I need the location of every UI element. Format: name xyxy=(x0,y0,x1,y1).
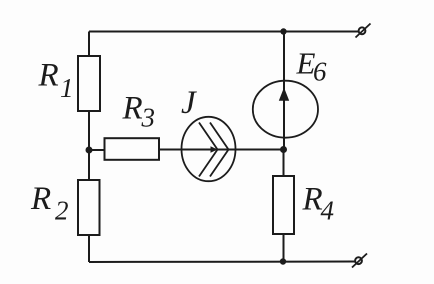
resistor R3 xyxy=(105,138,160,160)
wire R3 to J xyxy=(159,149,182,151)
wire middle left segment xyxy=(89,149,104,151)
wire left vertical upper xyxy=(88,32,90,57)
wire left vertical lower xyxy=(88,235,90,262)
wire top horizontal xyxy=(89,31,358,33)
svg-text:1: 1 xyxy=(60,73,74,103)
voltage source E6 xyxy=(253,81,318,150)
current source J xyxy=(182,117,236,181)
svg-text:R: R xyxy=(302,182,323,218)
svg-text:J: J xyxy=(181,85,197,121)
wire right vertical upper xyxy=(283,32,285,82)
wire bottom horizontal xyxy=(89,261,355,264)
svg-text:4: 4 xyxy=(321,195,335,225)
wire J to right junction xyxy=(235,149,284,151)
resistor R4 xyxy=(273,176,294,234)
node middle-right junction xyxy=(280,146,287,153)
svg-text:R: R xyxy=(38,57,59,93)
wire right vertical lower xyxy=(283,234,285,262)
resistor R2 xyxy=(78,180,100,235)
wire left vertical middle xyxy=(88,111,90,180)
svg-text:R: R xyxy=(30,181,51,217)
node bottom-right junction xyxy=(280,258,286,264)
wire junction to R4 xyxy=(283,150,285,177)
svg-text:6: 6 xyxy=(313,57,327,87)
svg-text:2: 2 xyxy=(55,196,69,226)
node top-right junction xyxy=(280,28,286,34)
resistor R1 xyxy=(78,56,100,111)
svg-text:R: R xyxy=(122,91,143,127)
terminal top-right xyxy=(356,24,371,38)
node left junction xyxy=(86,147,93,154)
svg-text:3: 3 xyxy=(141,102,156,132)
terminal bottom-right xyxy=(352,254,367,268)
